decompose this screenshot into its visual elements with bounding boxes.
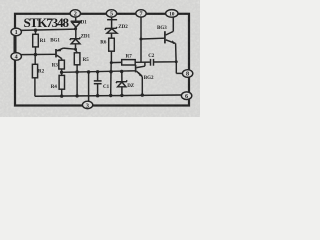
svg-text:R3: R3 [52, 64, 59, 69]
svg-text:3: 3 [86, 102, 89, 109]
svg-text:R7: R7 [126, 55, 133, 60]
svg-text:D1: D1 [81, 21, 88, 26]
svg-text:BG2: BG2 [144, 76, 154, 81]
svg-text:R4: R4 [51, 85, 58, 90]
svg-text:5: 5 [110, 11, 113, 18]
svg-text:4: 4 [15, 54, 18, 61]
svg-text:R6: R6 [100, 41, 107, 46]
svg-text:C2: C2 [148, 54, 155, 59]
svg-text:R1: R1 [40, 39, 47, 44]
svg-text:7: 7 [139, 11, 142, 18]
svg-text:BG3: BG3 [157, 26, 167, 31]
svg-text:ZD2: ZD2 [118, 25, 128, 30]
svg-text:6: 6 [185, 93, 188, 100]
svg-text:ZD1: ZD1 [81, 35, 91, 40]
svg-text:STK7348: STK7348 [24, 15, 70, 30]
svg-text:R2: R2 [38, 70, 45, 75]
svg-text:1: 1 [15, 29, 18, 36]
svg-text:BG1: BG1 [50, 39, 60, 44]
svg-text:R5: R5 [83, 58, 90, 63]
svg-text:10: 10 [169, 12, 175, 18]
svg-text:8: 8 [186, 71, 189, 78]
svg-text:C1: C1 [103, 85, 110, 90]
svg-text:DZ: DZ [127, 84, 135, 89]
svg-text:2: 2 [74, 11, 77, 18]
